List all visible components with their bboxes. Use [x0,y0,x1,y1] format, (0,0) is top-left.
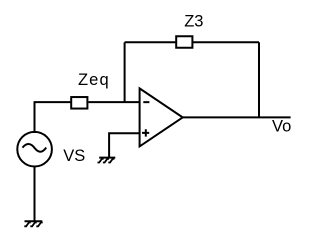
wire: feedback top left [125,41,177,43]
wire: Zeq to op-amp inverting input [88,101,139,103]
wire: op-amp output to Vo [183,116,291,118]
svg-text:Zeq: Zeq [78,71,110,89]
svg-text:VS: VS [63,147,85,165]
wire: VS bottom stem [34,166,36,221]
wire: VS top stem [35,102,71,133]
resistor Zeq [71,97,87,109]
svg-text:Vo: Vo [272,117,291,135]
op-amp non-inverting pin plus label [142,129,149,136]
wire: feedback right vertical [258,42,260,117]
voltage source VS [17,132,52,167]
wire: feedback top right [192,41,259,43]
wire: non-inverting input and ground stem [109,133,140,157]
wire: feedback left vertical [124,42,126,102]
op-amp inverting pin minus label [143,101,149,103]
resistor Z3 [176,36,192,48]
ground (non-inverting input) [98,158,116,163]
ground (below VS) [24,221,42,226]
op-amp U1 [140,88,183,146]
svg-text:Z3: Z3 [184,12,203,30]
